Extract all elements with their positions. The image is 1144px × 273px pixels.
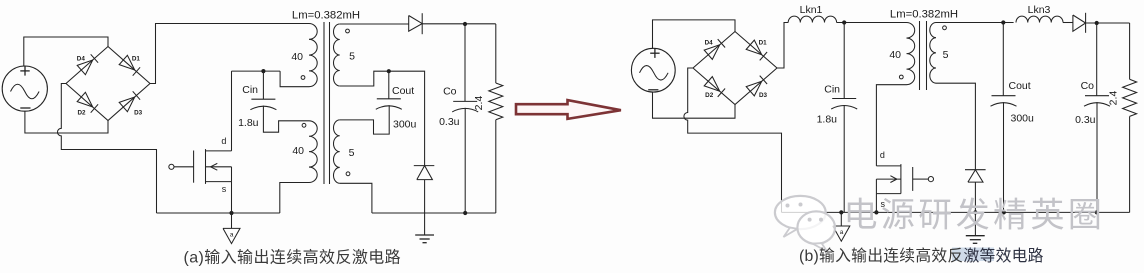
- transformer TX1 primary winding 2: [309, 121, 317, 183]
- svg-text:5: 5: [943, 49, 949, 61]
- AC source V1: [2, 66, 47, 111]
- diode D5 output: [1073, 13, 1086, 33]
- node polarity dot secondary 1: [346, 29, 350, 33]
- svg-text:5: 5: [349, 51, 355, 63]
- wire bottom rail primary: [157, 212, 280, 214]
- diode D6 freewheel: [965, 170, 986, 236]
- svg-text:Lkn1: Lkn1: [800, 4, 823, 16]
- transistor M2 MOSFET: [876, 150, 933, 209]
- svg-text:Cout: Cout: [392, 85, 414, 97]
- svg-text:40: 40: [889, 49, 901, 61]
- capacitor Cout: [376, 71, 417, 130]
- wire Cin bottom to winding 2 top: [263, 106, 309, 133]
- AC source V2: [631, 48, 675, 92]
- svg-text:Co: Co: [443, 86, 457, 98]
- wire bridge positive to top rail: [777, 23, 788, 69]
- wire bridge positive to top rail: [150, 24, 309, 84]
- node polarity dot primary 1: [301, 76, 305, 80]
- svg-text:Cin: Cin: [242, 84, 258, 96]
- transformer TX2 secondary winding: [930, 23, 936, 84]
- ground 0 primary: [223, 213, 240, 244]
- diode D3: [119, 97, 135, 112]
- wire source bottom to bridge: [25, 111, 108, 133]
- diode D2: [704, 77, 720, 92]
- svg-text:40: 40: [291, 51, 303, 63]
- svg-text:1.8u: 1.8u: [817, 114, 838, 126]
- svg-text:300u: 300u: [1011, 113, 1035, 125]
- wire secondary bottom to diode: [936, 83, 975, 170]
- node polarity dot secondary: [943, 26, 947, 30]
- capacitor Cout: [991, 23, 1035, 213]
- junction output top: [463, 22, 467, 26]
- svg-text:D3: D3: [759, 92, 768, 99]
- junction Cout bottom: [1002, 210, 1006, 214]
- svg-text:D3: D3: [134, 110, 143, 117]
- wire Cout bottom to secondary 2 top: [340, 105, 390, 134]
- diode D4: [704, 45, 720, 60]
- resistor R2 load: [1108, 23, 1137, 212]
- diode D5 output: [409, 13, 423, 34]
- transformer TX1 secondary winding 1: [334, 24, 340, 86]
- wire Lkn3 to diode: [1063, 22, 1073, 24]
- caption circuit b highlight: [952, 248, 994, 262]
- capacitor Cin: [817, 23, 858, 213]
- svg-text:D2: D2: [705, 92, 714, 99]
- capacitor Cin: [238, 71, 276, 129]
- wire primary bottom to drain: [876, 85, 906, 166]
- svg-text:Lm=0.382mH: Lm=0.382mH: [890, 8, 958, 20]
- svg-text:2.4: 2.4: [473, 96, 485, 111]
- junction Cin top: [261, 69, 265, 73]
- wire source top to bridge: [24, 37, 108, 66]
- svg-text:电源研发精英圈: 电源研发精英圈: [844, 197, 1106, 235]
- node polarity dot primary 2: [302, 123, 306, 127]
- junction source node: [874, 210, 878, 214]
- wire secondary 1 top to diode: [340, 23, 409, 25]
- resistor R1 load: [473, 24, 503, 213]
- transformer TX1 primary winding 1: [309, 24, 317, 87]
- svg-text:d: d: [221, 136, 226, 146]
- svg-text:D4: D4: [705, 40, 714, 47]
- junction Co top: [1095, 21, 1099, 25]
- wire source top to bridge: [653, 20, 736, 49]
- wire bridge negative with hop to bottom rail: [684, 68, 782, 212]
- wire to primary winding 1 bottom: [280, 71, 309, 87]
- transformer TX1 secondary winding 2: [334, 120, 340, 183]
- capacitor Co: [1075, 23, 1110, 212]
- junction Cin bottom: [839, 210, 843, 214]
- diode D2: [77, 92, 93, 107]
- wire Cin top node: [232, 70, 281, 72]
- svg-text:Lm=0.382mH: Lm=0.382mH: [292, 10, 360, 22]
- wire Lkn1 to primary top: [837, 22, 907, 24]
- ground earth secondary: [415, 235, 434, 243]
- junction Cin top: [842, 20, 846, 24]
- wire output node top: [1086, 22, 1130, 24]
- node bridge diamond: [693, 32, 777, 105]
- svg-text:D1: D1: [759, 40, 768, 47]
- svg-text:Cin: Cin: [824, 83, 840, 95]
- diode D1: [746, 40, 762, 55]
- svg-text:2.4: 2.4: [1108, 91, 1120, 106]
- svg-text:0.3u: 0.3u: [439, 116, 460, 128]
- svg-text:1.8u: 1.8u: [238, 117, 259, 129]
- junction Co bottom: [1095, 210, 1099, 214]
- wire bridge negative with hop to bottom rail: [58, 84, 157, 214]
- wire bottom rail: [782, 211, 1130, 213]
- inductor Lkn1: [788, 16, 836, 22]
- wire source down: [231, 182, 233, 213]
- diode D1: [119, 55, 135, 70]
- svg-text:Cout: Cout: [1009, 80, 1031, 92]
- transformer TX1 core: [323, 22, 325, 184]
- svg-text:D2: D2: [77, 110, 86, 117]
- svg-text:300u: 300u: [393, 118, 417, 130]
- transistor M1 MOSFET: [169, 136, 232, 194]
- diode D4: [77, 60, 93, 75]
- junction source node: [229, 211, 233, 215]
- ground earth secondary: [966, 236, 985, 244]
- svg-text:Co: Co: [1081, 80, 1095, 92]
- node bridge diamond: [66, 47, 150, 121]
- ground 0 node a: [833, 212, 850, 241]
- wire secondary 2 bottom to rail: [340, 183, 372, 213]
- wire secondary top rail: [936, 22, 1014, 24]
- watermark wechat logo: [775, 196, 835, 252]
- wire source bottom to bridge: [653, 92, 736, 118]
- svg-text:0.3u: 0.3u: [1075, 114, 1096, 126]
- svg-text:D4: D4: [77, 56, 86, 63]
- junction diode anode rail: [973, 210, 977, 214]
- wire secondary 1 bottom to Cout node: [340, 71, 425, 165]
- svg-text:a: a: [230, 232, 234, 239]
- svg-text:40: 40: [292, 145, 304, 157]
- capacitor Co: [439, 24, 478, 213]
- junction Co bottom: [463, 211, 467, 215]
- svg-text:s: s: [222, 184, 227, 194]
- svg-text:5: 5: [349, 147, 355, 159]
- diode D3: [746, 81, 762, 96]
- junction Cout top: [1001, 20, 1005, 24]
- arrow transform: [516, 100, 621, 119]
- svg-text:D1: D1: [132, 56, 141, 63]
- junction Cout top: [387, 69, 391, 73]
- svg-text:Lkn3: Lkn3: [1028, 4, 1051, 16]
- node polarity dot secondary 2: [346, 172, 350, 176]
- svg-text:(b)输入输出连续高效反激等效电路: (b)输入输出连续高效反激等效电路: [799, 247, 1044, 265]
- wire output node top: [422, 23, 496, 25]
- svg-text:(a)输入输出连续高效反激电路: (a)输入输出连续高效反激电路: [184, 248, 402, 266]
- wire source down: [875, 194, 877, 213]
- node polarity dot primary: [899, 75, 903, 79]
- transformer TX2 primary winding: [907, 23, 915, 85]
- wire drain up: [231, 71, 233, 151]
- transformer TX2 core: [919, 21, 921, 90]
- wire bottom rail secondary: [372, 212, 496, 214]
- wire winding 2 bottom to rail: [280, 183, 309, 214]
- diode D6 freewheel: [414, 166, 435, 235]
- inductor Lkn3: [1016, 16, 1063, 22]
- svg-text:d: d: [880, 150, 885, 160]
